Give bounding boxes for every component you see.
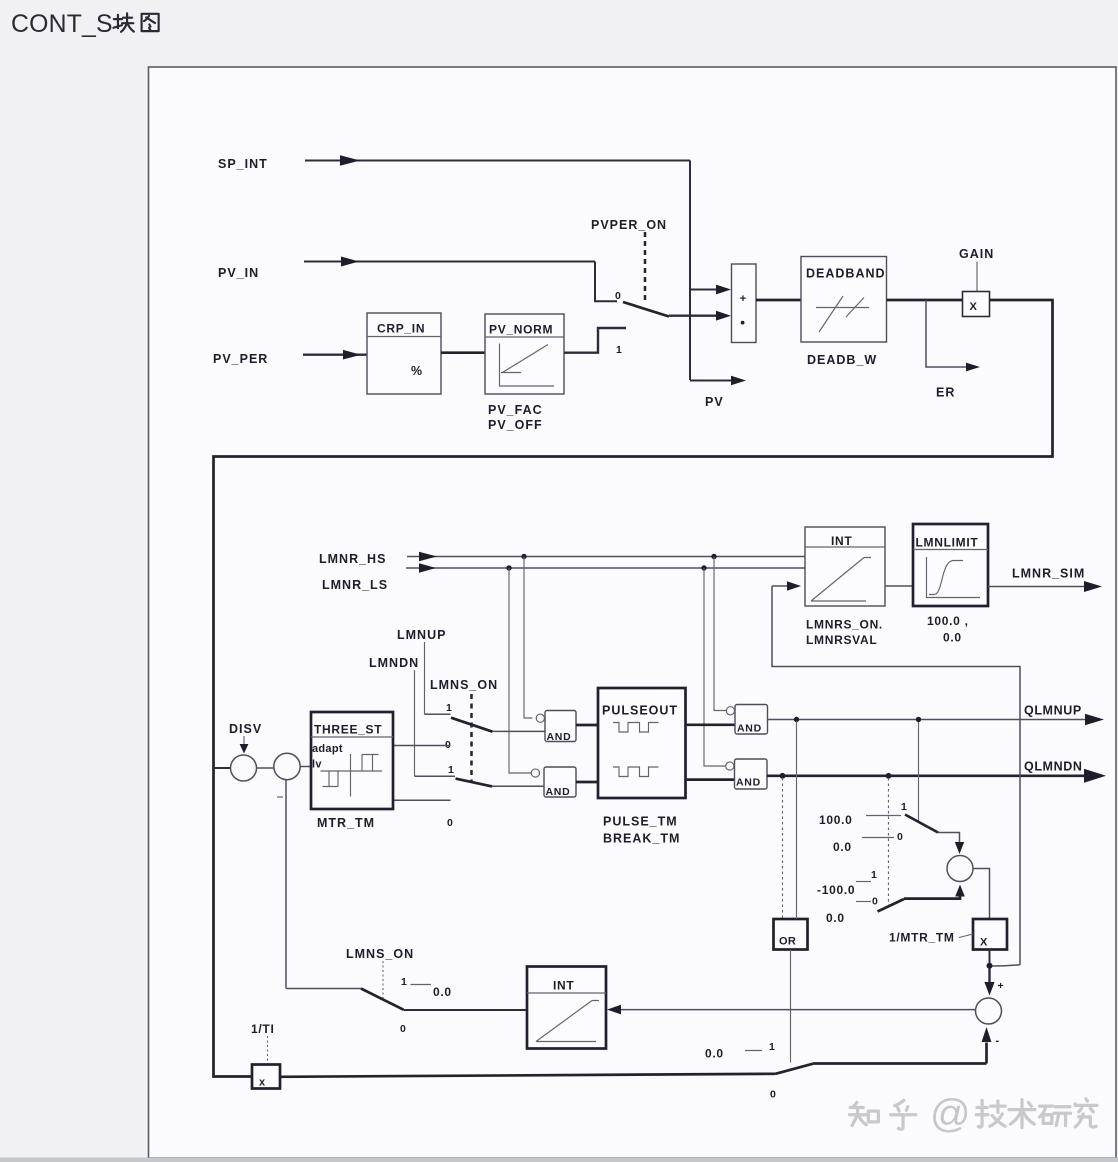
label contact 0 upper LMNS switch [445,739,451,751]
svg-text:AND: AND [546,786,571,798]
label QLMNUP [1024,704,1082,718]
wire PULSEOUT upper output [686,723,736,726]
label LMNR_LS [322,578,388,592]
label 0.0 feedback switch down [826,911,845,925]
svg-text:MTR_TM: MTR_TM [317,816,375,830]
node QLMNUP junction left [794,717,799,722]
title glyph kuai [113,13,133,31]
label PVPER_ON [591,218,667,232]
label DISV [229,722,262,736]
svg-text:0: 0 [400,1023,406,1035]
node LMNR_LS left junction [506,565,511,570]
label PV_PER [213,352,268,366]
switch arm bottom right [776,1064,814,1074]
wire GAIN to multiplier [976,262,978,292]
wire lower-left AND to PULSEOUT [576,781,598,784]
svg-text:LMNS_ON: LMNS_ON [430,678,498,692]
arrow DISV into summer [240,736,249,754]
svg-text:AND: AND [547,731,572,743]
AND gate upper-left [536,711,576,744]
wire CRP_IN to PV_NORM [441,351,485,354]
node LMNR_HS right junction [711,554,716,559]
wire INT input feedback loop [772,586,1020,966]
minus tick below summer2 [277,796,283,798]
label SP_INT [218,157,268,171]
svg-text:0.0: 0.0 [826,911,845,925]
title glyph tu [142,14,159,31]
wire contact 1 -100.0 [856,881,871,883]
block PULSEOUT [598,688,686,798]
wire integrator feedback horizontal [286,988,361,990]
wire LMNUP vertical [424,642,426,714]
svg-text:PV_IN: PV_IN [218,266,259,280]
node LMNR_HS left junction [521,554,526,559]
label contact 0 PVPER switch [615,290,621,302]
wire PULSEOUT lower output [686,778,735,781]
label LMNUP [397,628,446,642]
switch arm lower LMNS [456,779,493,787]
svg-text:DISV: DISV [229,722,262,736]
svg-text:0.0: 0.0 [705,1047,724,1061]
wire X output to node [989,950,991,964]
label contact 1 PVPER switch [616,344,622,356]
label ER [936,386,955,400]
wire PV_IN elbow to switch contact 0 [595,262,617,302]
label contact 1 upper LMNS switch [446,702,452,714]
multiplier X 1/MTR_TM block [973,919,1007,950]
label PV [705,395,724,409]
svg-text:PULSE_TM: PULSE_TM [603,815,678,829]
svg-text:0: 0 [615,290,621,302]
switch PVPER_ON arm [623,302,669,317]
svg-text:lv: lv [312,759,322,771]
wire THREE_ST lower output [393,799,451,801]
svg-text:X: X [970,301,978,313]
wire bottom switch output [813,1062,987,1065]
svg-text:AND: AND [737,723,762,735]
svg-text:0: 0 [770,1089,776,1101]
label GAIN [959,247,994,261]
svg-text:LMNR_SIM: LMNR_SIM [1012,567,1085,581]
leader LMNS_ON dotted [382,961,384,1000]
switch arm feedback down [878,899,905,912]
wire LMNR_HS to upper-left AND [524,557,532,719]
summer SP-PV block [732,264,757,343]
wire INT to LMNLIMIT [885,585,913,587]
svg-text:0: 0 [447,817,453,829]
wire 1/TI output line [280,1074,776,1077]
switch arm upper LMNS [451,718,493,732]
svg-text:QLMNUP: QLMNUP [1024,704,1082,718]
wire THREE_ST upper output [393,745,451,747]
wire summer1 to summer2 [257,767,274,769]
label LMNR_HS [319,552,386,566]
switch arm integrator LMNS [361,989,404,1010]
block INT lower [527,967,606,1049]
wire SP_INT horizontal [305,155,690,165]
svg-text:PV_FAC: PV_FAC [488,403,543,417]
wire PV_IN horizontal [304,257,595,267]
svg-text:CRP_IN: CRP_IN [377,322,425,336]
svg-text:LMNRSVAL: LMNRSVAL [806,633,877,647]
wire QLMNDN control vertical dashed [888,778,890,905]
svg-text:1: 1 [901,801,907,813]
svg-text:PVPER_ON: PVPER_ON [591,218,667,232]
svg-text:adapt: adapt [312,743,343,755]
wire DEADBAND to gain multiplier [887,299,963,302]
wire switch down output to summer A [904,885,965,899]
svg-text:+: + [998,980,1005,992]
svg-text:LMNLIMIT: LMNLIMIT [916,536,979,550]
wire LMNR_LS to lower-left AND [509,568,531,773]
wire upper switch to AND [493,730,546,732]
dashed control line PVPER_ON [644,232,647,303]
svg-text:0: 0 [897,831,903,843]
svg-text:PV_PER: PV_PER [213,352,268,366]
wire LMNR_HS to upper-right AND [714,557,726,711]
label 1/MTR_TM [889,931,955,945]
wire PV_PER horizontal [303,350,367,360]
label contact 0 lower LMNS switch [447,817,453,829]
wire QLMNDN to OR dashed [782,778,784,919]
svg-text:DEADBAND: DEADBAND [806,267,886,281]
svg-text:BREAK_TM: BREAK_TM [603,832,680,846]
svg-text:1: 1 [616,344,622,356]
label LMNS_ON lower [346,947,414,961]
label 0.0 feedback switch up [833,840,852,854]
label contact 0 integrator switch [400,1023,406,1035]
svg-text:ER: ER [936,386,955,400]
wire LMNDN contact 1 [415,775,456,777]
summer circle A feedback [947,856,973,882]
wire summer B output to INT low [607,1005,976,1015]
svg-text:1: 1 [448,764,454,776]
label BREAK_TM [603,832,680,846]
svg-text:INT: INT [831,534,852,548]
svg-text:PV_NORM: PV_NORM [489,323,553,337]
label PULSE_TM [603,815,678,829]
wire contact 0 down 0.0 [856,901,871,903]
label QLMNDN [1024,760,1082,774]
wire PV_NORM output to switch contact 1 [564,328,626,353]
AND gate upper-right [726,705,767,735]
label LMNRS_ON [806,618,883,632]
label contact 1 integrator switch [401,976,407,988]
label 0.0 integrator switch [433,985,452,999]
bottom gray strip [0,1158,1118,1162]
svg-text:OR: OR [779,936,796,948]
svg-text:DEADB_W: DEADB_W [807,353,877,367]
wire arrow into summer B plus [984,968,994,996]
dashed control LMNS_ON [470,694,473,783]
wire summer A output [973,869,990,920]
svg-text:0.0: 0.0 [433,985,452,999]
svg-text:LMNDN: LMNDN [369,656,419,670]
svg-text:LMNRS_ON.: LMNRS_ON. [806,618,883,632]
watermark zhihu [850,1092,1097,1136]
wire SP_INT vertical [689,161,691,381]
svg-text:1: 1 [871,869,877,881]
label contact 0 feedback switch up [897,831,903,843]
label contact 1 feedback switch up [901,801,907,813]
switch arm feedback up [905,815,938,833]
svg-text:CONT_S: CONT_S [11,11,113,38]
label LMNDN [369,656,419,670]
node QLMNDN junction left [780,773,786,779]
wire switch output to summer minus input [669,311,731,321]
wire LMNR_LS [406,563,805,573]
block THREE_ST [311,712,393,809]
svg-text:X: X [980,937,988,949]
wire LMNR_HS [407,552,805,562]
wire integrator switch to INT low [404,1009,528,1011]
svg-text:PV_OFF: PV_OFF [488,418,543,432]
svg-text:+: + [740,293,747,305]
label MTR_TM [317,816,375,830]
svg-text:LMNR_HS: LMNR_HS [319,552,386,566]
label plus summer B [998,980,1005,992]
wire integrator feedback vertical [285,780,287,989]
svg-text:LMNUP: LMNUP [397,628,446,642]
wire QLMNUP output line [768,714,1105,725]
svg-text:1/TI: 1/TI [251,1022,274,1036]
svg-text:THREE_ST: THREE_ST [314,723,382,737]
summer circle B [976,998,1002,1024]
label PV_IN [218,266,259,280]
label 100.0 feedback switch [819,813,853,827]
wire lower switch to AND [492,785,544,787]
label DEADB_W [807,353,877,367]
wire ER tap [926,300,980,371]
OR gate block [774,919,808,950]
wire contact 1 integrator switch [411,984,432,986]
svg-text:SP_INT: SP_INT [218,157,268,171]
svg-text:0.0: 0.0 [943,631,962,645]
label PV_FAC [488,403,543,417]
label contact 0 feedback switch down [872,896,878,908]
label contact 1 lower LMNS switch [448,764,454,776]
svg-text:PULSEOUT: PULSEOUT [602,704,678,718]
wire gain output feedback path [214,300,1053,1077]
svg-text:1: 1 [401,976,407,988]
wire LMNDN vertical [414,670,416,776]
node feedback tap [987,963,993,969]
wire feedback into summer circle 1 [214,767,231,769]
label contact 1 bottom switch [769,1041,775,1053]
node LMNR_LS right junction [701,565,706,570]
svg-text:PV: PV [705,395,724,409]
label 1/TI [251,1022,274,1036]
label 100.0 under LMNLIMIT [927,614,969,628]
wire SP to summer plus input [690,285,731,295]
svg-text:0.0: 0.0 [833,840,852,854]
wire summer2 to THREE_ST [300,766,311,768]
block LMNLIMIT [913,524,988,606]
label contact 0 bottom switch [770,1089,776,1101]
svg-text:QLMNDN: QLMNDN [1024,760,1082,774]
svg-text:GAIN: GAIN [959,247,994,261]
summer circle 2 integrator feedback [274,753,300,779]
label 0.0 under LMNLIMIT [943,631,962,645]
block CRP_IN [367,313,441,394]
label 0.0 bottom switch [705,1047,724,1061]
node QLMNDN junction right [886,773,892,779]
wire arrow into INT lower input [772,581,801,591]
block DEADBAND [801,257,887,343]
label minus summer B [996,1035,1000,1047]
svg-text:-: - [996,1035,1000,1047]
AND gate lower-left [531,767,576,798]
label LMNRSVAL [806,633,877,647]
wire contact 1 bottom switch [745,1050,762,1052]
label LMNS_ON upper [430,678,498,692]
block PV_NORM [485,314,564,394]
svg-text:-100.0: -100.0 [817,883,855,897]
svg-text:INT: INT [553,979,574,993]
svg-text:@: @ [930,1092,971,1136]
wire summer to DEADBAND [756,299,801,302]
block INT upper [805,527,885,606]
svg-text:x: x [259,1077,266,1089]
label contact 1 feedback switch down [871,869,877,881]
multiplier X 1/TI block [252,1065,280,1089]
page title CONT_S [11,11,113,38]
wire arrow into summer B minus [982,1027,992,1064]
svg-text:LMNR_LS: LMNR_LS [322,578,388,592]
node QLMNUP junction right [916,717,921,722]
multiplier X gain block [963,292,990,317]
leader 1/TI dotted [267,1036,269,1064]
svg-text:AND: AND [736,777,761,789]
svg-text:0: 0 [872,896,878,908]
wire contact 1 100.0 [866,815,901,817]
wire contact 0 0.0 [862,837,894,839]
label LMNR_SIM [1012,567,1085,581]
wire LMNR_SIM output [988,581,1102,592]
wire OR output down [790,950,792,1063]
svg-text:LMNS_ON: LMNS_ON [346,947,414,961]
AND gate lower-right [726,759,767,789]
wire upper-left AND to PULSEOUT [576,724,598,727]
svg-text:100.0 ,: 100.0 , [927,614,969,628]
wire PV tap arrow [690,376,746,386]
svg-text:%: % [411,364,423,378]
summer circle 1 DISV [231,755,257,781]
leader 1/MTR_TM [959,934,973,938]
label -100.0 feedback switch [817,883,855,897]
svg-text:1: 1 [769,1041,775,1053]
wire QLMNDN output line [767,769,1106,783]
wire QLMNUP control vertical [918,722,920,821]
wire QLMNUP to OR [796,721,798,919]
wire LMNUP contact 1 [425,713,451,715]
label PV_OFF [488,418,543,432]
svg-text:1/MTR_TM: 1/MTR_TM [889,931,955,945]
wire switch up output to summer A [938,833,964,855]
wire LMNR_LS to lower-right AND [704,568,726,766]
svg-text:100.0: 100.0 [819,813,853,827]
svg-text:1: 1 [446,702,452,714]
